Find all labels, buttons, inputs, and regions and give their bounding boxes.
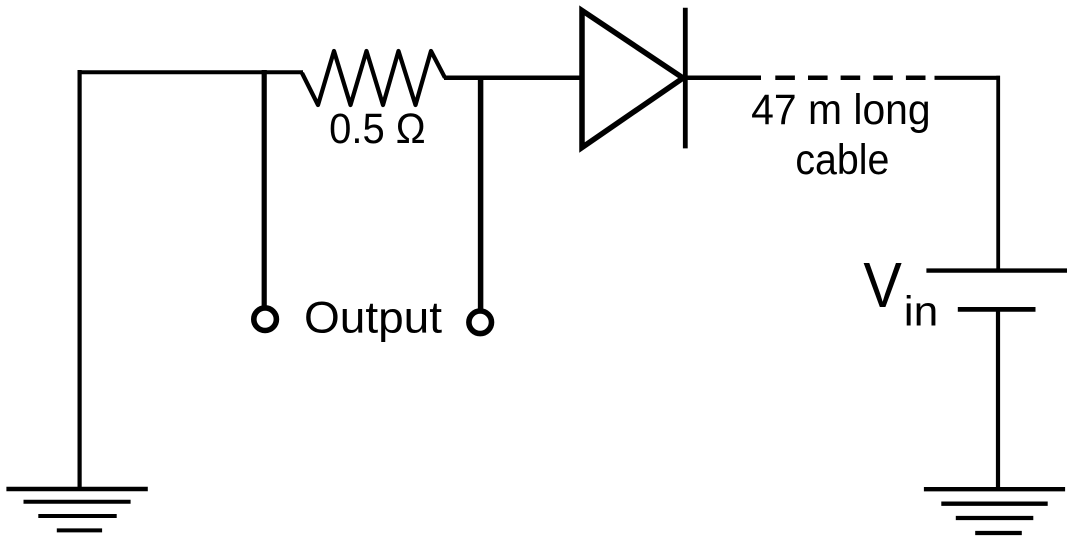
svg-text:Output: Output	[304, 294, 443, 343]
wire: right output lead (junction to terminal)	[478, 76, 484, 311]
wire: left vertical	[77, 70, 81, 489]
svg-text:0.5 Ω: 0.5 Ω	[329, 105, 426, 153]
battery Vin negative plate	[958, 307, 1036, 312]
wire: battery - to ground	[996, 309, 1000, 489]
battery Vin positive plate	[926, 268, 1067, 272]
wire: cable to corner (solid)	[935, 76, 1001, 80]
node: output terminal left	[254, 308, 277, 331]
svg-text:cable: cable	[795, 136, 889, 184]
wire: resistor to diode	[444, 76, 584, 81]
ground GND left	[6, 489, 147, 530]
resistor 0.5 ohm	[302, 51, 445, 105]
svg-text:V: V	[863, 249, 902, 321]
svg-text:in: in	[904, 288, 939, 335]
svg-text:47 m long: 47 m long	[751, 86, 931, 134]
ground GND right	[924, 489, 1065, 533]
node: output terminal right	[469, 311, 492, 334]
wire: right vertical (corner to battery +)	[996, 76, 1000, 271]
wire: 47 m cable (dashed)	[775, 76, 925, 81]
wire: top-left horizontal	[78, 70, 304, 74]
diode cathode bar	[683, 8, 688, 149]
diode (anode triangle)	[582, 11, 683, 148]
wire: diode to cable (solid)	[685, 76, 761, 81]
wire: left output lead (junction to terminal)	[262, 70, 267, 307]
